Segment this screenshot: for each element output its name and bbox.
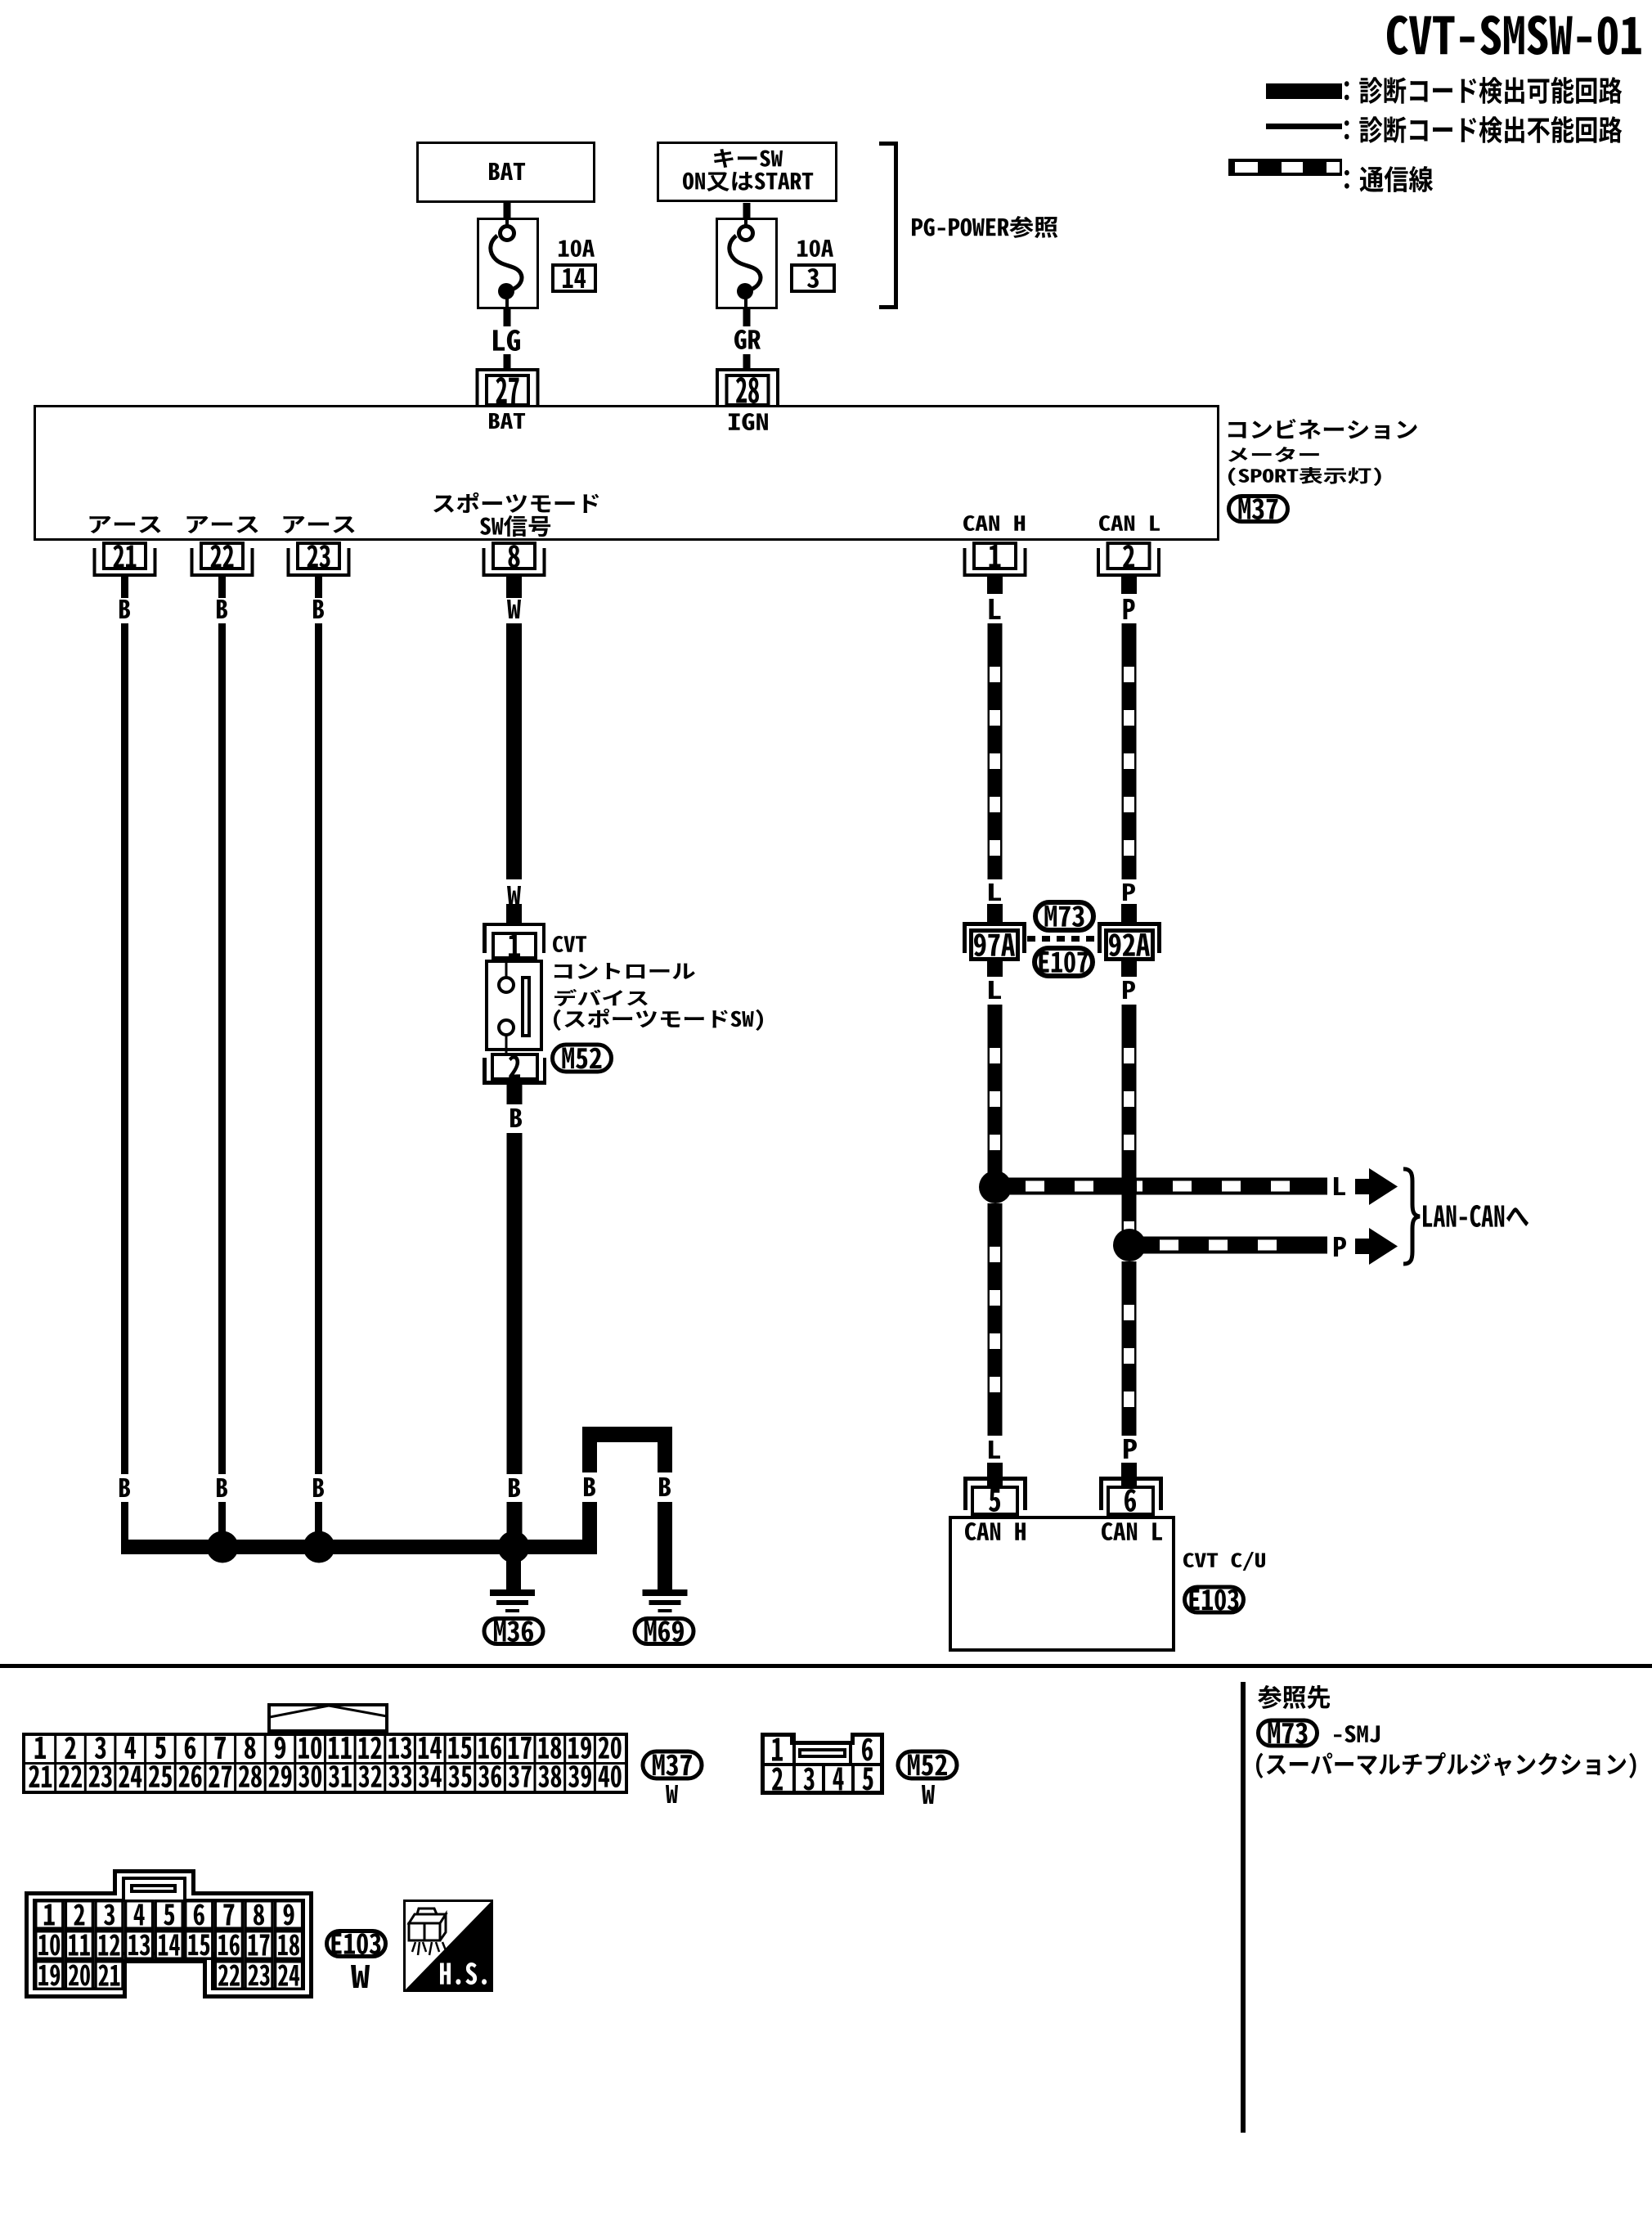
wire color label P above SMJ xyxy=(1123,883,1135,901)
CAN comm line L lower xyxy=(988,1203,1003,1436)
pin label sport mode SW signal xyxy=(433,492,599,537)
horizontal separator line xyxy=(0,1664,1652,1668)
wire fuse 3 to GR label xyxy=(743,309,751,326)
CVT control device switch body M52 xyxy=(487,961,541,1053)
junction node B2 xyxy=(303,1531,335,1563)
connector oval M37 (face) xyxy=(643,1751,702,1778)
wire W into M52 pin 1 xyxy=(506,904,522,923)
CVT control device terminal 2 xyxy=(483,1054,546,1085)
wire B stub below M52 pin 2 xyxy=(507,1085,523,1104)
wire color label L above terminal 5 xyxy=(989,1441,1000,1459)
wire fuse 14 to LG label xyxy=(504,309,511,326)
wire color label LG xyxy=(493,330,520,351)
ground symbol M36 xyxy=(490,1589,535,1612)
junction node B1 xyxy=(207,1531,239,1563)
wire bridge right leg to ground M69 xyxy=(658,1502,672,1589)
SMJ connector 92A xyxy=(1098,922,1161,960)
label PG-POWER reference xyxy=(912,216,1057,238)
CAN comm line L middle xyxy=(988,1005,1003,1182)
junction node B3 xyxy=(498,1531,530,1563)
terminal 6 xyxy=(1099,1477,1163,1514)
fuse 3 xyxy=(717,218,777,311)
wire color label B lower (23) xyxy=(313,1478,324,1497)
junction node CAN P xyxy=(1113,1229,1146,1261)
label LAN-CAN xyxy=(1423,1205,1529,1227)
reference oval M73 xyxy=(1259,1720,1318,1746)
wire crossing patch P over L line xyxy=(1122,1178,1137,1195)
label super multiple junction xyxy=(1256,1752,1636,1778)
pin label earth 23 xyxy=(284,516,355,533)
face color label W (M37) xyxy=(666,1785,678,1803)
wire label L at arrow xyxy=(1334,1177,1345,1195)
wire P stub into SMJ xyxy=(1121,904,1137,923)
wire color label L below SMJ xyxy=(989,981,1001,999)
combination meter box M37 xyxy=(35,407,1219,540)
wire B terminal 22 to junction xyxy=(218,1502,226,1547)
wire color label P above terminal 6 xyxy=(1124,1439,1137,1459)
legend label detectable circuit xyxy=(1344,77,1622,104)
wire B terminal 23 to junction xyxy=(315,1502,322,1547)
junction node CAN L xyxy=(979,1171,1012,1203)
face color label W (M52) xyxy=(922,1785,935,1804)
ground oval M69 xyxy=(635,1619,694,1644)
wire color label B bridge left xyxy=(584,1477,595,1496)
pin label CAN L (CVT) xyxy=(1102,1522,1162,1540)
wire color label B above junction xyxy=(509,1478,520,1497)
ground oval M36 xyxy=(484,1619,543,1644)
fuse rating 10A and number 3 xyxy=(792,240,834,291)
fuse rating 10A and number 14 xyxy=(553,240,595,291)
legend undetectable-circuit sample bar xyxy=(1266,124,1342,129)
label reference destination xyxy=(1258,1685,1330,1709)
wire B vertical run from terminal 22 xyxy=(218,623,226,1474)
wire color label B (21) xyxy=(119,600,130,618)
arrow L to LAN-CAN xyxy=(1355,1168,1398,1205)
terminal 22 xyxy=(191,543,254,577)
face color label W (E103) xyxy=(351,1965,370,1988)
arrow P to LAN-CAN xyxy=(1355,1228,1398,1265)
wire P stub below terminal xyxy=(1121,577,1137,594)
wire color label B lower (21) xyxy=(119,1478,130,1497)
pin label CAN H xyxy=(963,515,1025,531)
wire bridge left leg to bus xyxy=(582,1502,597,1554)
SMJ oval M73 xyxy=(1035,902,1093,930)
connector oval M52 xyxy=(553,1045,612,1072)
terminal 28 IGN xyxy=(716,368,779,430)
connector face M52 xyxy=(762,1733,882,1793)
wire color label B (22) xyxy=(217,600,227,618)
wire L stub into SMJ xyxy=(987,904,1003,923)
wire B stub below terminal 21 xyxy=(121,577,128,598)
terminal 8 xyxy=(483,543,546,577)
pin label earth 21 xyxy=(90,516,161,533)
H.S. view icon xyxy=(403,1900,493,1992)
wire color label L above SMJ xyxy=(989,883,1001,901)
ground symbol M69 xyxy=(643,1589,688,1612)
CAN comm line L upper xyxy=(988,623,1003,879)
CAN comm line L horizontal to LAN-CAN xyxy=(995,1178,1327,1195)
wire LG to terminal 27 xyxy=(504,354,511,368)
terminal 5 xyxy=(963,1477,1027,1514)
connector oval E103 (face) xyxy=(327,1931,386,1957)
legend communication-line sample bar xyxy=(1228,159,1342,176)
ground bus wire xyxy=(121,1540,596,1554)
title CVT-SMSW-01 xyxy=(1387,16,1641,55)
CVT control device terminal 1 xyxy=(483,923,545,958)
brace to LAN-CAN xyxy=(1403,1169,1420,1264)
connector oval M37 xyxy=(1229,497,1288,522)
CVT C/U box E103 xyxy=(950,1517,1174,1650)
wire key switch to fuse 3 xyxy=(743,203,751,218)
wire color label W xyxy=(507,600,521,618)
wire color label L xyxy=(989,599,1000,619)
wire P stub into terminal 6 xyxy=(1121,1463,1137,1486)
wire junction B3 to ground M36 xyxy=(506,1554,521,1589)
wire B terminal 21 to ground bus elbow xyxy=(121,1502,128,1554)
CAN comm line P middle xyxy=(1122,1005,1137,1240)
wire color label GR xyxy=(734,330,761,349)
power source box BAT xyxy=(418,143,595,202)
CAN comm line P upper xyxy=(1122,623,1137,879)
legend label communication line xyxy=(1344,166,1433,192)
wire L stub below SMJ xyxy=(987,961,1003,977)
connector face E103 housing xyxy=(27,1872,312,1997)
wire color label W above M52 xyxy=(507,886,521,904)
wire color label P below SMJ xyxy=(1123,981,1135,999)
wire color label B below M52 xyxy=(510,1108,522,1127)
label -SMJ xyxy=(1334,1725,1380,1742)
wire B from M52 down xyxy=(507,1133,523,1474)
wire B vertical run from terminal 23 xyxy=(315,623,322,1474)
wire GR to terminal 28 xyxy=(743,354,751,368)
vertical divider line xyxy=(1241,1682,1246,2133)
legend detectable-circuit sample bar xyxy=(1266,83,1342,99)
terminal 23 xyxy=(287,543,351,577)
wire B into junction M36 xyxy=(507,1502,523,1554)
SMJ dashed link xyxy=(1027,936,1094,942)
pin label earth 22 xyxy=(187,516,258,533)
wire bridge between B wires xyxy=(582,1427,672,1472)
wire BAT to fuse 14 xyxy=(504,203,511,218)
SMJ oval E107 xyxy=(1035,948,1093,976)
wire W stub below terminal 8 xyxy=(506,577,522,598)
pin label CAN L xyxy=(1099,515,1160,531)
wire color label P xyxy=(1124,599,1135,619)
wire L stub below terminal xyxy=(987,577,1003,594)
label CVT control device xyxy=(553,936,763,1031)
terminal 1 xyxy=(963,543,1027,577)
wire color label B lower (22) xyxy=(217,1478,227,1497)
terminal 21 xyxy=(93,543,157,577)
wire B vertical run from terminal 21 xyxy=(121,623,128,1474)
wire B stub below terminal 22 xyxy=(218,577,226,598)
connector face table M37 xyxy=(24,1734,626,1792)
wire color label B bridge right xyxy=(659,1477,671,1496)
terminal 27 BAT xyxy=(476,368,540,429)
CAN comm line P horizontal to LAN-CAN xyxy=(1129,1237,1327,1254)
SMJ connector 97A xyxy=(963,922,1026,960)
fuse 14 xyxy=(478,218,538,311)
connector oval M52 (face) xyxy=(898,1751,957,1778)
power source box key switch ON/START xyxy=(658,143,837,201)
wire color label B (23) xyxy=(313,600,324,618)
terminal 2 xyxy=(1097,543,1160,577)
wire P stub below SMJ xyxy=(1121,961,1137,977)
wire L stub into terminal 5 xyxy=(987,1463,1003,1486)
CAN comm line P lower xyxy=(1122,1261,1137,1436)
legend label undetectable circuit xyxy=(1344,116,1622,143)
label combination meter xyxy=(1228,419,1417,486)
wire label P at arrow xyxy=(1334,1237,1346,1257)
wire W vertical run xyxy=(506,623,522,879)
pin label CAN H (CVT) xyxy=(965,1522,1026,1540)
connector face M37 guide bump xyxy=(269,1705,387,1731)
PG-POWER reference bracket xyxy=(879,142,898,309)
connector oval E103 xyxy=(1185,1587,1244,1612)
wire B stub below terminal 23 xyxy=(315,577,322,598)
label CVT C/U xyxy=(1183,1552,1265,1571)
